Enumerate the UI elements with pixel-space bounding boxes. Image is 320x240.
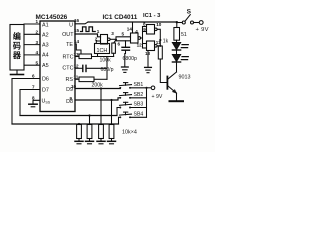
ground (oscillator cap) <box>122 67 129 72</box>
svg-text:6: 6 <box>32 74 35 79</box>
svg-text:SB1: SB1 <box>134 82 144 88</box>
svg-text:IC1 - 3: IC1 - 3 <box>143 13 161 19</box>
D7 bottom rail <box>20 115 117 117</box>
wire A4 <box>24 54 40 56</box>
svg-text:7: 7 <box>32 85 35 90</box>
node B junctions <box>159 39 161 41</box>
gate U1-3 <box>147 25 155 35</box>
svg-text:SB4: SB4 <box>134 112 144 118</box>
wire 1CH bottom to RTC node <box>97 54 99 57</box>
capacitor 680p <box>83 65 107 71</box>
resistor 10k (1) <box>75 123 83 144</box>
svg-text:51: 51 <box>181 32 187 38</box>
IC U1 CD4011 title <box>103 14 138 21</box>
D6 pin6 wire left loop <box>12 79 40 125</box>
svg-text:12: 12 <box>74 63 80 68</box>
resistor 100k <box>79 54 92 59</box>
svg-text:CTC: CTC <box>62 66 73 72</box>
pin8 Vss ground <box>29 100 40 107</box>
capacitor 6800p <box>122 41 130 67</box>
svg-text:14: 14 <box>74 39 80 44</box>
wire A2 <box>24 33 40 35</box>
input bus x142 <box>142 27 144 49</box>
gate2 output wire to bus <box>141 37 143 39</box>
svg-text:MC145026: MC145026 <box>36 14 68 21</box>
svg-text:IC1 CD4011: IC1 CD4011 <box>103 14 138 21</box>
IC U2 right pin numbers <box>32 18 80 101</box>
svg-text:4: 4 <box>135 29 138 34</box>
junction node A <box>115 39 117 41</box>
resistor 1k <box>159 40 161 46</box>
svg-text:3: 3 <box>111 31 114 36</box>
svg-text:14: 14 <box>127 26 133 31</box>
svg-text:9013: 9013 <box>179 75 191 81</box>
svg-text:+ 9V: + 9V <box>196 27 209 33</box>
svg-text:1CH: 1CH <box>97 48 108 54</box>
wire LED2 to collector <box>176 62 178 72</box>
resistor 200k <box>79 77 94 82</box>
wire 1k to base <box>160 59 167 83</box>
RS pin11 wire <box>75 78 79 80</box>
svg-text:6: 6 <box>118 41 121 46</box>
svg-text:A5: A5 <box>42 63 49 69</box>
waveform symbol <box>81 27 96 32</box>
IC U2 left pin labels <box>42 23 51 105</box>
LED VD1 <box>172 43 188 51</box>
svg-text:D7: D7 <box>42 87 49 93</box>
top rail junction <box>176 21 178 23</box>
svg-text:9: 9 <box>70 96 73 101</box>
svg-text:+ 9V: + 9V <box>152 94 163 100</box>
svg-text:1: 1 <box>36 19 39 24</box>
svg-text:D6: D6 <box>42 76 49 82</box>
VDD top rail <box>88 21 177 23</box>
svg-text:6800p: 6800p <box>123 56 138 62</box>
wires node A to gate2 inputs <box>116 37 131 40</box>
resistor 51 <box>176 23 178 28</box>
svg-text:SB3: SB3 <box>134 102 144 108</box>
svg-text:RTC: RTC <box>63 54 74 60</box>
D7 pin7 wire left loop <box>20 90 40 116</box>
ground under encoder box <box>11 70 24 75</box>
wire A3 <box>24 44 40 46</box>
resistor 10k (2) <box>86 114 94 143</box>
svg-text:A2: A2 <box>42 32 49 38</box>
node bus x107 <box>106 57 108 80</box>
IC1-3 gate label <box>143 13 161 19</box>
OUT pin15 wire <box>75 34 101 37</box>
svg-text:器: 器 <box>12 51 22 60</box>
svg-text:4: 4 <box>36 50 39 55</box>
ground (gate4 / pin7) <box>145 51 152 73</box>
svg-text:10k×4: 10k×4 <box>122 130 137 136</box>
svg-text:100k: 100k <box>100 58 112 64</box>
svg-text:码: 码 <box>13 42 21 51</box>
CTC pin12 wire <box>75 67 82 69</box>
buttons common rail <box>146 88 148 118</box>
resonator 1CH box <box>95 44 110 54</box>
svg-text:11: 11 <box>74 74 79 79</box>
svg-text:编: 编 <box>13 31 21 41</box>
resistor R3 to resonator <box>114 40 116 43</box>
IC U2 right pin labels <box>62 23 74 106</box>
svg-text:1: 1 <box>97 29 100 34</box>
pin16 VDD wire <box>75 22 88 24</box>
IC U2 box MC145026 <box>40 21 75 112</box>
svg-text:S: S <box>187 9 192 16</box>
svg-text:U: U <box>69 23 73 29</box>
svg-text:A1: A1 <box>42 23 49 29</box>
svg-text:9: 9 <box>143 27 146 32</box>
svg-text:12: 12 <box>137 42 143 47</box>
D9 pin10 rail <box>75 87 120 90</box>
gate3 input wires <box>143 26 147 28</box>
gate1 pin labels 1 2 3 <box>95 29 115 41</box>
wire A1 <box>24 23 40 25</box>
SB4 riser <box>119 117 121 124</box>
svg-text:1k: 1k <box>163 38 169 44</box>
svg-text:RS: RS <box>66 77 74 83</box>
gate3 output wire <box>157 29 160 40</box>
LED VD2 <box>172 55 188 63</box>
+9V terminal (buttons) <box>148 87 152 89</box>
gate4 output wire <box>157 45 160 47</box>
gate4 input wires <box>143 43 147 45</box>
svg-text:OUT: OUT <box>62 32 74 38</box>
svg-text:8: 8 <box>32 95 35 100</box>
button SB2 <box>119 92 146 99</box>
label 10k x4 <box>122 130 137 136</box>
pin 14 VDD riser <box>132 22 134 33</box>
wire A5 <box>24 64 40 66</box>
button SB4 <box>119 112 146 119</box>
svg-text:16: 16 <box>74 18 80 23</box>
svg-text:SB2: SB2 <box>134 92 144 98</box>
button SB1 <box>119 82 146 89</box>
svg-text:5: 5 <box>122 31 125 36</box>
svg-text:2: 2 <box>95 36 98 41</box>
svg-text:A4: A4 <box>42 53 49 59</box>
+9V battery terminal <box>199 21 203 25</box>
gate1 output wire <box>110 38 116 40</box>
ground (emitter) <box>170 100 184 102</box>
gate U1-1 <box>101 35 108 45</box>
D8 pin9 rail <box>75 98 120 100</box>
transistor Q1 9013 <box>167 72 190 101</box>
switch S <box>177 9 199 24</box>
TE pin14 wire <box>75 44 81 54</box>
svg-text:2: 2 <box>36 30 39 35</box>
resistor 10k (4) <box>108 99 116 144</box>
resistor 10k (3) <box>97 87 105 143</box>
gate U1-4 <box>147 41 155 51</box>
IC U2 MC145026 title <box>36 14 68 21</box>
SB3 riser <box>117 108 120 116</box>
svg-text:A3: A3 <box>42 43 49 49</box>
svg-text:8: 8 <box>143 21 146 26</box>
left pin numbers 1-5 <box>36 19 39 65</box>
D6 bottom rail <box>12 123 119 125</box>
svg-text:3: 3 <box>36 40 39 45</box>
svg-text:15: 15 <box>74 28 80 33</box>
svg-text:TE: TE <box>66 42 73 48</box>
svg-text:5: 5 <box>36 60 39 65</box>
button SB3 <box>119 102 146 109</box>
RTC pin13 wire <box>75 56 79 58</box>
gate U1-2 <box>131 33 139 43</box>
wire 1CH to gate1 input 2 <box>96 41 100 44</box>
encoder box 编码器 <box>10 25 24 71</box>
svg-text:10: 10 <box>156 22 162 27</box>
